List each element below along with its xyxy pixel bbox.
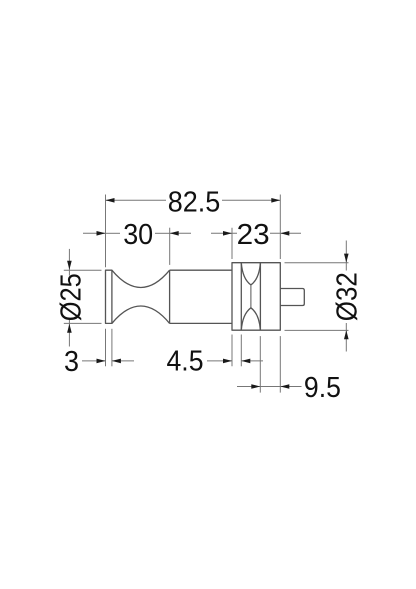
svg-text:30: 30 [123, 219, 153, 251]
svg-text:82.5: 82.5 [168, 186, 221, 218]
svg-text:4.5: 4.5 [167, 346, 204, 378]
svg-text:Ø25: Ø25 [55, 273, 87, 321]
svg-text:3: 3 [64, 346, 79, 378]
svg-text:Ø32: Ø32 [332, 272, 364, 321]
svg-text:9.5: 9.5 [304, 372, 341, 404]
svg-text:23: 23 [237, 219, 270, 251]
